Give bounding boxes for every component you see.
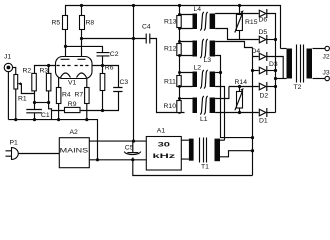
svg-text:D5: D5 [259,29,268,36]
wire R7 bottom lead [86,104,88,120]
node junction L2 stubs [178,71,181,74]
wire D6 anode from L4 [215,13,259,15]
connector J1 [4,63,12,71]
svg-text:R12: R12 [164,46,177,53]
vacuum tube V1 envelope [56,57,93,79]
resistor R5 [63,16,68,30]
wire ground rail [8,120,97,160]
svg-text:R11: R11 [164,79,176,86]
wire A1 to T1 primary [182,140,189,159]
node top rail junction chain rail [178,4,181,7]
svg-text:P1: P1 [10,139,19,146]
wire bottom return [133,160,253,176]
wire C2 bottom lead [102,56,104,66]
resistor R6 [100,74,105,91]
node junction cathode bus D2 [274,85,277,88]
wire R8 anode lead [81,30,83,60]
diode D4 [259,53,266,60]
node junction cathode bus D3 [274,69,277,72]
svg-text:R3: R3 [40,68,49,75]
wire L1 top stub to D2 wire [215,87,229,99]
transformer T2 core [297,45,304,83]
node junction L3 stubs [178,40,181,43]
inductor L2 core [200,70,208,89]
wire T2 secondary bottom to J3 [313,78,326,80]
inductor L1 left winding [193,98,198,114]
wire D4 anode staircase from L3 top [215,42,259,57]
svg-text:MAINS: MAINS [60,148,89,155]
wire J1 ground lead [7,71,9,119]
wire D1 cathode [267,112,276,114]
svg-text:L2: L2 [194,65,202,72]
wire MAINS to A1 top [89,140,146,142]
svg-text:L4: L4 [194,6,202,13]
node top rail junction R15 [238,4,241,7]
node junction ground drop [96,158,99,161]
svg-text:C3: C3 [120,79,129,86]
svg-text:R15: R15 [245,19,258,26]
svg-text:A1: A1 [157,128,166,135]
resistor R8 [80,16,85,30]
wire cathode bus to T2 [276,78,287,80]
wire top supply rail [66,6,281,49]
wire R1 wiper arrow [19,84,35,94]
wire R8 top lead [81,6,83,16]
svg-text:R10: R10 [164,103,177,110]
svg-text:J2: J2 [323,53,330,60]
node ground junction C1 [33,118,36,121]
node junction R5 lead y46.4 [64,45,67,48]
capacitor C1 [26,110,42,113]
diode D1 [259,109,266,116]
wire D3 cathode [267,70,276,72]
capacitor C3 [113,88,122,92]
svg-text:D3: D3 [269,61,278,68]
svg-text:J1: J1 [4,54,11,61]
wire C5 leads [132,141,134,160]
svg-text:C2: C2 [110,51,119,58]
wire L3 left stubs [180,42,193,56]
svg-text:C1: C1 [41,112,50,119]
transformer T1 secondary winding [215,139,221,162]
resistor R4 [56,88,61,104]
svg-text:R5: R5 [52,20,61,27]
node junction C1 top knot [33,101,36,104]
tube V1 cathode arcs [61,73,87,78]
svg-text:V1: V1 [68,80,77,87]
tube V1 anode plates [61,58,86,60]
inductor L3 left winding [193,41,198,57]
wire chain left rail x179 [179,6,181,113]
svg-text:kHz: kHz [153,153,177,160]
svg-text:L1: L1 [200,116,208,123]
svg-text:R13: R13 [164,19,177,26]
inductor L4 right winding [210,14,216,30]
wire D6 cathode [267,14,276,113]
svg-text:D6: D6 [259,17,268,24]
wire MAINS to A1 bottom [89,159,146,161]
wire D1 anode from L1 bottom [215,112,259,114]
wire D4 cathode bypass [267,57,283,79]
node junction B+ drop MAINS [132,140,135,143]
svg-text:R1: R1 [18,96,27,103]
node junction L4 stubs [178,13,181,16]
svg-text:R4: R4 [62,91,71,98]
wire cathode bus y110 [52,92,119,111]
node junction rail y150.7 [251,149,254,152]
svg-text:D1: D1 [259,118,268,125]
svg-text:R6: R6 [105,64,114,71]
wire L2 left stubs [180,73,193,87]
inductor L4 left winding [193,14,198,30]
svg-text:R9: R9 [68,101,77,108]
trimmer R15 [236,15,242,31]
wire L3 bottom to chain mid V1 [215,56,252,138]
wire R6 leads [102,66,104,111]
wire B+ vertical x133 [133,6,135,142]
resistor R10 [177,101,181,113]
inductor L3 core [200,39,208,58]
svg-text:C4: C4 [142,24,151,31]
transformer T1 core [200,138,207,163]
node junction x133 y38 [132,37,135,40]
node ground junction R1 [14,118,17,121]
inductor L3 right winding [210,41,216,57]
capacitor C5 [127,152,138,154]
wire T1 secondary top [220,139,225,141]
trimmer R14 [237,92,243,109]
wire R14 bottom lead [239,109,241,113]
wire D2 cathode [267,86,276,88]
capacitor C4 [146,34,150,44]
node junction R3 knot [47,101,50,104]
svg-text:A2: A2 [70,129,79,136]
wire right grid y65.5 [92,66,119,88]
wire D5 anode from L4 bottom and R15 [215,29,259,40]
resistor R12 [177,44,181,56]
wire T2 primary top from top rail [281,48,287,50]
wire R5 tap y46.4 to C2 [66,46,103,52]
wire R4 bottom lead [58,104,60,120]
wire knot y102.5 [35,102,49,104]
wire R1 bottom lead [15,90,17,120]
wire R15 bottom lead [239,31,241,40]
svg-text:R7: R7 [75,91,84,98]
diode D5 [259,36,266,43]
node junction C5 bottom [131,158,134,161]
resistor R11 [177,76,181,87]
wire C4 right to chain rail bottom [150,39,185,113]
wire HT feed y38 to C4 [82,38,147,40]
resistor R9 [65,107,81,112]
wire R5 anode lead [65,30,67,60]
potentiometer R1 [14,75,18,90]
node junction R14 top [238,85,241,88]
svg-text:R8: R8 [86,20,95,27]
diode D2 [259,83,266,90]
wire cathode lead right [86,78,88,88]
node junction cathode bus T2 feed [274,77,277,80]
transformer T2 secondary winding [307,49,313,79]
wire R2 top to grid wire [35,66,56,74]
svg-text:D4: D4 [252,48,261,55]
resistor R2 [32,73,37,91]
wire T2 secondary top to J2 [313,48,326,50]
wire J1 to R1 top [13,68,16,75]
node junction L1 top stub [178,97,181,100]
connector J2 [325,46,329,50]
transformer T2 primary winding [287,49,293,79]
node junction cathode bus D5 [274,38,277,41]
wire L4 left stubs [180,15,193,29]
svg-text:30: 30 [158,142,171,149]
node junction grid C2 R6 [101,64,104,67]
node junction R6 bottom [101,109,104,112]
wire D3 anode stub [253,70,259,72]
connector J3 [325,76,329,80]
node ground junction R7 [85,118,88,121]
svg-text:T1: T1 [201,163,209,170]
wire T1 secondary bottom [220,151,253,157]
wire R14 top lead [239,87,241,92]
inductor L2 right winding [210,72,216,88]
capacitor C2 [97,53,110,56]
resistor R7 [85,88,90,104]
node junction R3 grid wire [47,64,50,67]
node junction rail y137.6 [251,136,254,139]
wire L2 top stub [215,72,220,74]
svg-text:J3: J3 [323,69,330,76]
plug P1 [6,151,12,156]
resistor R3 [46,73,51,91]
wire D2 anode from L1 top [229,86,259,88]
node junction R14 bottom [238,111,241,114]
node junction R8 lead y38 [80,37,83,40]
inductor L1 right winding [210,98,216,114]
svg-text:R14: R14 [235,79,248,86]
wire R3 top lead [48,66,50,74]
wire center rail x252.5 [252,48,254,176]
wire C1 bottom lead [34,113,36,120]
wire R15 top lead [239,6,241,15]
node junction rail D3 [251,69,254,72]
resistor R13 [177,16,181,28]
wire P1 to MAINS [18,153,59,155]
inductor L4 core [200,12,208,31]
wire R2 bottom lead [34,91,36,110]
node ground junction R4 [57,118,60,121]
svg-text:T2: T2 [294,84,302,91]
svg-text:D2: D2 [260,93,269,100]
wire D5 cathode [267,39,276,41]
diode D3 [259,67,266,74]
node top rail junction R8 [80,4,83,7]
wire cathode lead left [58,78,60,88]
node junction L2 top V1 [219,71,222,74]
wire L1 left top stub [180,98,193,100]
box A2 MAINS [59,138,89,168]
svg-text:R2: R2 [23,68,32,75]
inductor L1 core [200,96,208,115]
svg-text:L3: L3 [204,57,212,64]
node junction chain rail bottom [178,111,181,114]
diode D6 [259,10,266,17]
box A1 30kHz oscillator [146,137,181,171]
inductor L2 left winding [193,72,198,88]
tube V1 grid dashes [57,65,90,67]
wire R3 bottom lead with jog to ground [49,91,52,120]
wire L2 bottom to T1 top V2 [215,87,224,141]
node top rail junction B+ drop [132,4,135,7]
transformer T1 primary winding [189,139,194,161]
